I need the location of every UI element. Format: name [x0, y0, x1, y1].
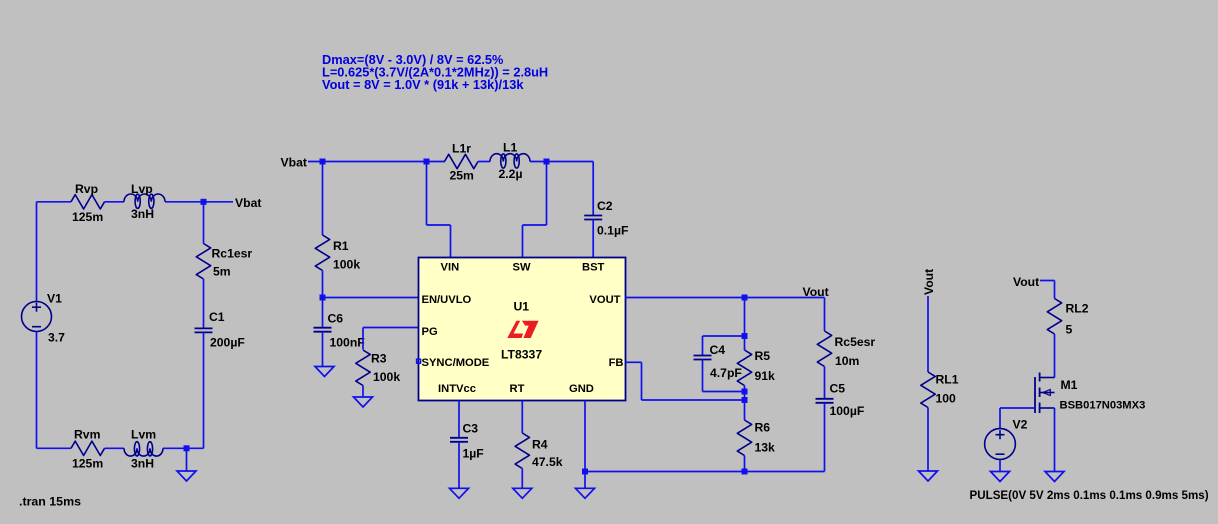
- svg-text:FB: FB: [609, 357, 624, 369]
- label L1: [503, 141, 517, 155]
- svg-text:M1: M1: [1061, 378, 1078, 392]
- svg-text:C1: C1: [209, 310, 225, 324]
- svg-text:Rc5esr: Rc5esr: [835, 335, 876, 349]
- svg-text:SW: SW: [513, 261, 531, 273]
- label Rc5esr: [835, 335, 876, 349]
- svg-text:RL1: RL1: [936, 373, 959, 387]
- comment text Dmax: [322, 52, 504, 67]
- label C6: [328, 312, 344, 326]
- svg-text:U1: U1: [514, 299, 530, 313]
- label Lvm: [131, 428, 156, 442]
- wire: [927, 408, 929, 472]
- svg-text:C2: C2: [597, 199, 613, 213]
- svg-text:R6: R6: [755, 421, 771, 435]
- wire: [163, 447, 204, 449]
- wire: [1054, 408, 1056, 472]
- label L1r: [452, 142, 471, 156]
- svg-text:C6: C6: [328, 312, 344, 326]
- svg-text:EN/UVLO: EN/UVLO: [422, 294, 472, 306]
- node SW junction: [544, 159, 550, 165]
- svg-text:RL2: RL2: [1066, 302, 1089, 316]
- svg-text:3.7: 3.7: [48, 331, 65, 345]
- value 100nF: [330, 336, 365, 350]
- label RL2: [1066, 302, 1089, 316]
- wire: [592, 162, 594, 216]
- wire: [521, 469, 523, 489]
- wire gate: [1000, 408, 1035, 429]
- net label Vbat 2: [281, 156, 307, 170]
- svg-text:3nH: 3nH: [131, 207, 154, 221]
- svg-text:47.5k: 47.5k: [532, 455, 563, 469]
- wire: [105, 447, 125, 449]
- svg-text:100: 100: [936, 392, 957, 406]
- node EN junction: [320, 295, 326, 301]
- svg-text:Vout: Vout: [1013, 275, 1039, 289]
- wire: [592, 220, 594, 259]
- svg-text:2.2µ: 2.2µ: [499, 167, 523, 181]
- label C2: [597, 199, 613, 213]
- wire: [584, 401, 586, 489]
- svg-text:100k: 100k: [373, 370, 400, 384]
- resistor R6: [737, 420, 751, 456]
- capacitor C5: [816, 399, 834, 403]
- wire: [36, 332, 38, 449]
- ground: [315, 367, 334, 377]
- svg-text:Lvp: Lvp: [131, 182, 153, 196]
- wire: [458, 401, 460, 438]
- svg-text:13k: 13k: [755, 441, 776, 455]
- wire: [744, 298, 746, 351]
- pin VOUT: [589, 294, 620, 306]
- svg-text:C4: C4: [710, 343, 726, 357]
- svg-text:100k: 100k: [333, 258, 360, 272]
- label M1: [1061, 378, 1078, 392]
- ground: [991, 472, 1010, 482]
- resistor R5: [737, 350, 751, 386]
- voltage source V1: [22, 302, 52, 332]
- wire: [824, 298, 826, 332]
- value 91k: [755, 369, 776, 383]
- wire: [322, 162, 324, 236]
- svg-text:PG: PG: [422, 326, 438, 338]
- value 2.2u: [499, 167, 523, 181]
- svg-text:10m: 10m: [835, 354, 860, 368]
- svg-text:R3: R3: [371, 352, 387, 366]
- svg-text:25m: 25m: [450, 169, 475, 183]
- pin RT: [510, 383, 525, 395]
- pin EN/UVLO: [422, 294, 472, 306]
- value 13k: [755, 441, 776, 455]
- inductor Lvp: [124, 194, 165, 208]
- svg-text:0.1µF: 0.1µF: [597, 224, 628, 238]
- capacitor C6: [314, 328, 332, 332]
- node FB junction: [742, 397, 748, 403]
- ground: [919, 471, 938, 481]
- wire: [203, 332, 205, 448]
- wire: [203, 279, 205, 328]
- pin BST: [582, 261, 605, 273]
- wire: [927, 296, 929, 372]
- value BSB017N03MX3: [1060, 400, 1146, 412]
- wire: [322, 271, 324, 328]
- label R5: [755, 349, 771, 363]
- ground: [1045, 472, 1064, 482]
- pin SW: [513, 261, 531, 273]
- value 100k: [373, 370, 400, 384]
- label RL1: [936, 373, 959, 387]
- label R1: [333, 239, 349, 253]
- value 5m: [213, 265, 231, 279]
- value 47.5k: [532, 455, 563, 469]
- ground: [513, 488, 532, 498]
- resistor R1: [315, 235, 329, 271]
- svg-text:PULSE(0V 5V 2ms 0.1ms 0.1ms 0.: PULSE(0V 5V 2ms 0.1ms 0.1ms 0.9ms 5ms): [970, 489, 1209, 502]
- svg-text:Vout = 8V = 1.0V * (91k + 13k): Vout = 8V = 1.0V * (91k + 13k)/13k: [322, 77, 524, 92]
- svg-text:L1r: L1r: [452, 142, 471, 156]
- svg-text:Lvm: Lvm: [131, 428, 156, 442]
- wire: [362, 386, 364, 398]
- svg-text:GND: GND: [569, 383, 594, 395]
- resistor RL2: [1047, 299, 1061, 335]
- svg-text:V1: V1: [47, 292, 62, 306]
- svg-text:Vbat: Vbat: [281, 156, 307, 170]
- pin VIN: [441, 261, 460, 273]
- ground: [354, 397, 373, 407]
- svg-text:5m: 5m: [213, 265, 231, 279]
- resistor Rvp: [71, 195, 105, 209]
- resistor Rc5esr: [817, 331, 831, 367]
- logo LT: [507, 321, 538, 338]
- net label Vout: [803, 285, 829, 299]
- svg-text:Vbat: Vbat: [235, 196, 261, 210]
- svg-text:C3: C3: [463, 422, 479, 436]
- ground: [450, 488, 469, 498]
- label LT8337: [501, 348, 542, 362]
- svg-text:LT8337: LT8337: [501, 348, 542, 362]
- svg-text:1µF: 1µF: [463, 447, 484, 461]
- svg-text:R5: R5: [755, 349, 771, 363]
- label C4: [710, 343, 726, 357]
- wire: [458, 442, 460, 489]
- pin GND: [569, 383, 594, 395]
- node VIN junction: [424, 159, 430, 165]
- wire: [37, 201, 72, 203]
- value 125m: [72, 210, 103, 224]
- wire: [1040, 281, 1055, 299]
- capacitor C2: [584, 216, 602, 220]
- svg-text:200µF: 200µF: [210, 336, 245, 350]
- svg-text:V2: V2: [1013, 418, 1028, 432]
- svg-text:125m: 125m: [72, 210, 103, 224]
- op-amp U1 LT8337 box: [419, 258, 626, 401]
- svg-text:VOUT: VOUT: [589, 294, 620, 306]
- value 5: [1066, 323, 1073, 337]
- svg-text:C5: C5: [830, 382, 846, 396]
- label R6: [755, 421, 771, 435]
- value 100: [936, 392, 957, 406]
- wire PG: [363, 328, 419, 350]
- wire: [744, 456, 746, 472]
- value 0.1uF: [597, 224, 628, 238]
- svg-text:RT: RT: [510, 383, 525, 395]
- wire: [105, 201, 125, 203]
- label C5: [830, 382, 846, 396]
- value 10m: [835, 354, 860, 368]
- svg-text:VIN: VIN: [441, 261, 460, 273]
- value 100uF: [830, 404, 865, 418]
- svg-text:R1: R1: [333, 239, 349, 253]
- wire: [308, 161, 445, 163]
- svg-text:Rvp: Rvp: [75, 182, 98, 196]
- value 25m: [450, 169, 475, 183]
- inductor L1: [490, 154, 530, 168]
- node C4 top junction: [742, 333, 748, 339]
- resistor R3: [356, 350, 370, 386]
- pin marker SYNC/MODE square: [417, 359, 421, 363]
- svg-text:R4: R4: [532, 438, 548, 452]
- svg-text:INTVcc: INTVcc: [438, 383, 476, 395]
- resistor Rvm: [71, 441, 105, 455]
- wire EN/UVLO: [323, 297, 419, 299]
- svg-text:5: 5: [1066, 323, 1073, 337]
- label V1: [47, 292, 62, 306]
- wire: [1054, 334, 1056, 378]
- node GND junction: [582, 469, 588, 475]
- spice directive .tran: [19, 495, 81, 509]
- value 100k: [333, 258, 360, 272]
- node C4 bottom junction: [742, 389, 748, 395]
- node bottom junction: [184, 445, 190, 451]
- net label Vout 2: [1013, 275, 1039, 289]
- resistor L1r: [445, 154, 479, 168]
- svg-text:3nH: 3nH: [131, 457, 154, 471]
- wire VIN drop: [427, 162, 451, 259]
- label R4: [532, 438, 548, 452]
- pin SYNC/MODE: [422, 357, 490, 369]
- svg-text:Rvm: Rvm: [74, 428, 101, 442]
- net label Vbat: [235, 196, 261, 210]
- svg-text:100µF: 100µF: [830, 404, 865, 418]
- wire C4 bottom: [703, 360, 745, 392]
- node Vbat junction: [201, 199, 207, 205]
- svg-text:91k: 91k: [755, 369, 776, 383]
- value 200uF: [210, 336, 245, 350]
- svg-text:4.7pF: 4.7pF: [710, 366, 742, 380]
- node R1 junction: [320, 159, 326, 165]
- value 4.7pF: [710, 366, 742, 380]
- label Rvp: [75, 182, 98, 196]
- svg-text:Vout: Vout: [922, 269, 936, 295]
- wire C4 top: [703, 336, 745, 356]
- wire FB: [626, 362, 745, 400]
- label V2: [1013, 418, 1028, 432]
- inductor Lvm: [124, 442, 163, 456]
- label C3: [463, 422, 479, 436]
- node bottom rail junction: [742, 469, 748, 475]
- value 3.7: [48, 331, 65, 345]
- resistor R4: [515, 433, 529, 469]
- wire: [824, 403, 826, 472]
- label Rc1esr: [212, 247, 253, 261]
- svg-text:Rc1esr: Rc1esr: [212, 247, 253, 261]
- pin INTVcc: [438, 383, 476, 395]
- voltage source V2: [985, 429, 1016, 460]
- wire: [478, 161, 490, 163]
- label U1: [514, 299, 530, 313]
- wire: [322, 332, 324, 367]
- wire: [521, 401, 523, 434]
- wire SW drop: [523, 162, 547, 259]
- value PULSE: [970, 489, 1209, 502]
- wire bottom rail: [585, 471, 825, 473]
- net label Vout rotated: [922, 269, 936, 295]
- wire: [37, 447, 72, 449]
- svg-text:Vout: Vout: [803, 285, 829, 299]
- resistor RL1: [921, 372, 935, 408]
- node Vout junction: [742, 295, 748, 301]
- resistor Rc1esr: [196, 244, 210, 280]
- ground: [576, 488, 595, 498]
- wire: [186, 448, 188, 471]
- label Lvp: [131, 182, 153, 196]
- wire: [165, 201, 233, 203]
- svg-text:100nF: 100nF: [330, 336, 365, 350]
- wire: [203, 202, 205, 244]
- wire: [530, 161, 593, 163]
- wire: [36, 202, 38, 302]
- pin PG: [422, 326, 438, 338]
- capacitor C3: [450, 438, 468, 442]
- value 1uF: [463, 447, 484, 461]
- wire: [744, 386, 746, 421]
- label R3: [371, 352, 387, 366]
- value 3nH: [131, 457, 154, 471]
- pin FB: [609, 357, 624, 369]
- svg-text:L1: L1: [503, 141, 517, 155]
- label Rvm: [74, 428, 101, 442]
- comment text L: [322, 65, 548, 80]
- svg-text:.tran 15ms: .tran 15ms: [19, 495, 81, 509]
- capacitor C4: [694, 356, 712, 360]
- value 125m: [72, 457, 103, 471]
- svg-text:SYNC/MODE: SYNC/MODE: [422, 357, 490, 369]
- wire: [999, 460, 1001, 472]
- value 3nH: [131, 207, 154, 221]
- wire: [824, 367, 826, 399]
- svg-text:125m: 125m: [72, 457, 103, 471]
- comment text Vout: [322, 77, 524, 92]
- transistor M1: [1035, 373, 1055, 414]
- label C1: [209, 310, 225, 324]
- ground: [177, 471, 196, 481]
- wire VOUT rail: [626, 297, 825, 299]
- svg-text:BSB017N03MX3: BSB017N03MX3: [1060, 400, 1146, 412]
- svg-text:BST: BST: [582, 261, 605, 273]
- capacitor C1: [195, 328, 213, 332]
